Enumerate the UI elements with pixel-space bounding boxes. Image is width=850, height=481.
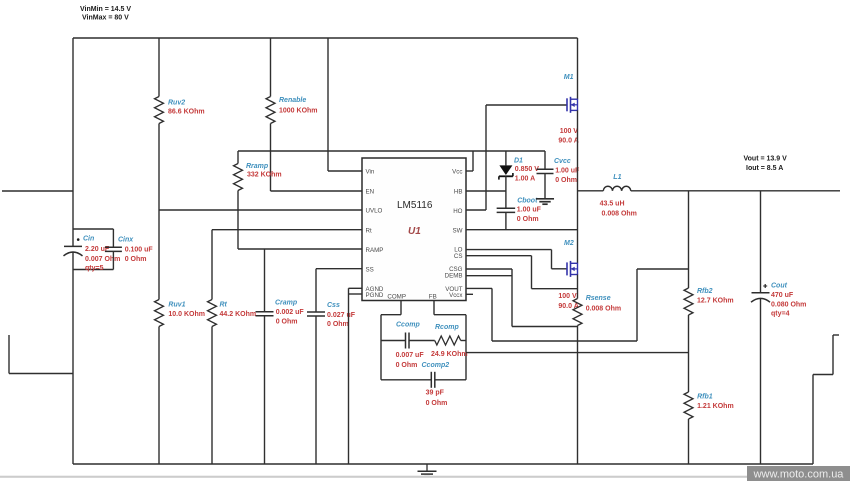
- wire VOUT drop: [491, 288, 493, 341]
- wire Rt rail top: [211, 230, 213, 300]
- svg-text:SW: SW: [453, 227, 463, 234]
- svg-text:Vin: Vin: [366, 169, 375, 176]
- wire COMP drop: [400, 301, 402, 315]
- resistor Rsense: [573, 299, 582, 326]
- wire CS drop: [531, 256, 533, 289]
- wire Cvcc rail bottom: [544, 174, 546, 199]
- wire Ruv2-Ruv1 rail middle: [158, 124, 160, 300]
- wire Vin pin net: [328, 170, 362, 172]
- wire Vcc riser: [472, 151, 474, 171]
- resistor Ruv2: [155, 97, 164, 124]
- ground Cvcc: [536, 198, 554, 200]
- svg-text:0 Ohm: 0 Ohm: [426, 400, 448, 407]
- svg-text:FB: FB: [429, 294, 437, 301]
- svg-text:Rfb1: Rfb1: [697, 394, 713, 401]
- svg-text:0.002 uF: 0.002 uF: [276, 309, 305, 316]
- wire comp middle left: [381, 340, 406, 342]
- svg-text:VinMin = 14.5 V: VinMin = 14.5 V: [80, 6, 131, 13]
- wire Ruv2 rail top: [158, 38, 160, 97]
- svg-text:D1: D1: [514, 158, 523, 165]
- capacitor Cout polarity mark: [763, 284, 767, 288]
- wire EN net: [271, 190, 363, 192]
- wire comp box bottom-right: [435, 379, 466, 381]
- svg-text:M1: M1: [564, 74, 574, 81]
- svg-text:EN: EN: [366, 189, 375, 196]
- wire VIN top rail: [73, 37, 578, 39]
- svg-text:470 uF: 470 uF: [771, 292, 794, 299]
- svg-text:Cinx: Cinx: [118, 237, 134, 244]
- svg-text:Rsense: Rsense: [586, 295, 611, 302]
- svg-text:1.00 A: 1.00 A: [515, 176, 535, 183]
- svg-text:RAMP: RAMP: [366, 247, 384, 254]
- svg-text:1000 KOhm: 1000 KOhm: [279, 107, 318, 114]
- wire FB drop: [433, 301, 435, 315]
- wire FB tap net: [466, 352, 689, 354]
- wire UVLO net: [159, 209, 362, 211]
- ground main (bottom rail): [426, 464, 428, 471]
- wire Css rail bottom: [315, 316, 317, 464]
- svg-text:qty=4: qty=4: [771, 310, 790, 317]
- watermark box www.moto.com.ua: [747, 466, 850, 481]
- svg-text:PGND: PGND: [366, 292, 384, 299]
- svg-text:0.027 uF: 0.027 uF: [327, 312, 356, 319]
- capacitor Cin polarity dot: [77, 238, 80, 241]
- svg-text:0 Ohm: 0 Ohm: [276, 319, 298, 326]
- resistor Rcomp: [435, 336, 461, 345]
- transistor M2: [566, 262, 568, 275]
- wire VIN left rail upper segment: [72, 38, 74, 246]
- capacitor Cramp: [256, 311, 274, 313]
- wire Vcc pin stub: [466, 170, 473, 172]
- svg-text:Rt: Rt: [220, 301, 228, 308]
- resistor Rramp: [234, 164, 243, 191]
- svg-text:HO: HO: [453, 208, 462, 215]
- svg-text:Rt: Rt: [366, 227, 372, 234]
- wire CSG net: [466, 268, 512, 270]
- capacitor Ccomp2: [430, 372, 432, 388]
- wire LO net: [466, 249, 552, 251]
- svg-text:HB: HB: [454, 189, 463, 196]
- wire AGND-PGND rail: [348, 288, 350, 464]
- svg-text:0 Ohm: 0 Ohm: [125, 256, 147, 263]
- wire VOUT sense horizontal: [492, 340, 637, 342]
- svg-text:qty=5: qty=5: [85, 265, 104, 272]
- svg-text:0 Ohm: 0 Ohm: [555, 177, 577, 184]
- wire HB net: [466, 190, 506, 192]
- capacitor Cboot: [497, 207, 516, 209]
- wire ground bottom rail: [73, 463, 813, 465]
- svg-text:100 V: 100 V: [560, 128, 579, 135]
- wire Rsense to ground rail: [577, 326, 579, 465]
- capacitor Cin (polarized, on left rail): [64, 245, 82, 247]
- svg-text:0 Ohm: 0 Ohm: [517, 216, 539, 223]
- wire Css rail top: [315, 269, 317, 312]
- svg-text:Rramp: Rramp: [246, 163, 269, 170]
- svg-text:UVLO: UVLO: [366, 208, 383, 215]
- wire M2 source to Rsense: [577, 275, 579, 299]
- diode D1: [499, 165, 512, 175]
- resistor Rt: [208, 300, 217, 327]
- wire CSG to Rsense bottom: [512, 326, 578, 328]
- wire comp box top-right: [434, 314, 466, 316]
- svg-text:LM5116: LM5116: [397, 200, 433, 211]
- wire M1 gate net: [486, 104, 567, 106]
- svg-text:Cboot: Cboot: [517, 197, 538, 204]
- wire left rail lower segment (ground return): [72, 252, 74, 464]
- wire comp box bottom-left: [381, 379, 431, 381]
- wire AGND net: [349, 287, 363, 289]
- svg-text:Vcc: Vcc: [452, 169, 462, 176]
- wire D1 anode segment: [505, 151, 507, 165]
- wire Cramp rail bottom: [264, 316, 266, 464]
- wire SW to L1: [578, 190, 604, 192]
- wire Rfb1 rail bottom: [688, 419, 690, 464]
- svg-text:0 Ohm: 0 Ohm: [327, 321, 349, 328]
- wire right step horizontal lower: [813, 374, 833, 376]
- svg-text:L1: L1: [613, 174, 621, 181]
- wire Rt rail bottom: [211, 327, 213, 465]
- wire CSG-DEMB drop: [511, 269, 513, 327]
- wire Cinx branch lower: [112, 251, 114, 269]
- wire DEMB net: [466, 275, 512, 277]
- svg-text:100 V: 100 V: [558, 293, 577, 300]
- svg-text:0.007 uF: 0.007 uF: [396, 352, 425, 359]
- capacitor Cvcc: [537, 168, 554, 170]
- wire VOUT sense riser: [636, 269, 638, 341]
- wire VOUT output rail: [631, 190, 840, 192]
- svg-text:0.008 Ohm: 0.008 Ohm: [586, 305, 621, 312]
- wire Rfb2-Rfb1 rail (FB tap): [688, 315, 690, 392]
- wire CS to Rsense top: [532, 288, 578, 290]
- svg-text:1.21 KOhm: 1.21 KOhm: [697, 403, 734, 410]
- wire Cout rail top: [760, 191, 762, 293]
- capacitor Cinx: [105, 246, 122, 248]
- wire PGND net: [349, 293, 363, 295]
- svg-text:Iout = 8.5 A: Iout = 8.5 A: [746, 165, 783, 172]
- svg-text:Ruv2: Ruv2: [168, 99, 185, 106]
- wire Vin riser: [327, 38, 329, 171]
- wire Cinx branch upper: [112, 229, 114, 247]
- wire comp middle right: [461, 340, 466, 342]
- wire Ruv1 rail bottom: [158, 327, 160, 465]
- wire D1 cathode to Cboot: [505, 176, 507, 208]
- svg-text:86.6 KOhm: 86.6 KOhm: [168, 109, 205, 116]
- svg-text:0.080 Ohm: 0.080 Ohm: [771, 301, 806, 308]
- wire HO riser: [485, 105, 487, 210]
- resistor Rfb1: [684, 392, 693, 419]
- transistor M1: [566, 98, 568, 111]
- svg-text:90.0 A: 90.0 A: [558, 138, 578, 145]
- svg-text:COMP: COMP: [387, 294, 406, 301]
- inductor L1: [603, 186, 631, 191]
- svg-text:Cvcc: Cvcc: [554, 158, 571, 165]
- wire SW net: [466, 229, 578, 231]
- wire Rramp top net (to VCC rail): [238, 150, 545, 152]
- capacitor Cout (polarized): [752, 292, 770, 294]
- wire HO pin stub: [466, 209, 486, 211]
- svg-text:10.0 KOhm: 10.0 KOhm: [168, 311, 205, 318]
- wire input stub left edge: [2, 190, 73, 192]
- wire M1 source to M2 drain rail (SW node): [577, 110, 579, 263]
- wire comp box left rail: [380, 315, 382, 380]
- svg-text:www.moto.com.ua: www.moto.com.ua: [753, 468, 845, 480]
- node Cin box bottom edge: [73, 269, 113, 271]
- wire Rt net: [212, 229, 362, 231]
- svg-text:24.9 KOhm: 24.9 KOhm: [431, 351, 468, 358]
- capacitor Css: [307, 311, 325, 313]
- svg-text:332 KOhm: 332 KOhm: [247, 171, 282, 178]
- wire Rfb2 rail top: [688, 191, 690, 288]
- wire left L-stub vertical: [8, 335, 10, 374]
- wire right step horizontal upper: [833, 334, 839, 336]
- wire Cramp rail top: [264, 249, 266, 312]
- svg-text:Rcomp: Rcomp: [435, 324, 459, 331]
- svg-text:43.5 uH: 43.5 uH: [600, 201, 625, 208]
- wire Rramp rail bottom: [237, 191, 239, 250]
- svg-text:M2: M2: [564, 240, 574, 247]
- svg-text:39 pF: 39 pF: [426, 390, 445, 397]
- wire LO drop: [551, 250, 553, 269]
- svg-text:DEMB: DEMB: [445, 272, 463, 279]
- wire CS net: [466, 255, 532, 257]
- svg-text:0.008 Ohm: 0.008 Ohm: [602, 211, 637, 218]
- svg-text:0.100 uF: 0.100 uF: [125, 247, 154, 254]
- op-amp U1 LM5116 body: [362, 158, 466, 301]
- svg-text:12.7 KOhm: 12.7 KOhm: [697, 298, 734, 305]
- resistor Rfb2: [684, 288, 693, 315]
- svg-text:Cout: Cout: [771, 282, 788, 289]
- wire right step riser lower: [812, 375, 814, 465]
- svg-text:Ccomp2: Ccomp2: [422, 362, 450, 369]
- svg-text:1.00 uF: 1.00 uF: [517, 207, 542, 214]
- wire Vccx stub: [466, 293, 473, 295]
- wire right step riser upper: [832, 335, 834, 375]
- wire RAMP net: [238, 248, 362, 250]
- wire VOUT sense to output node: [637, 268, 689, 270]
- wire Rramp rail top: [237, 151, 239, 164]
- svg-text:Ruv1: Ruv1: [168, 301, 185, 308]
- svg-text:CS: CS: [454, 253, 463, 260]
- svg-text:0.007 Ohm: 0.007 Ohm: [85, 256, 120, 263]
- wire M2 gate net: [552, 268, 568, 270]
- resistor Ruv1: [155, 300, 164, 327]
- svg-text:44.2 KOhm: 44.2 KOhm: [220, 311, 257, 318]
- svg-text:0.850 V: 0.850 V: [515, 166, 539, 173]
- svg-text:0 Ohm: 0 Ohm: [396, 362, 418, 369]
- svg-text:Cin: Cin: [83, 236, 94, 243]
- svg-text:U1: U1: [408, 226, 421, 237]
- capacitor Ccomp: [405, 333, 407, 349]
- svg-text:Rfb2: Rfb2: [697, 288, 713, 295]
- wire left L-stub horizontal: [9, 373, 73, 375]
- wire comp middle center: [409, 340, 435, 342]
- wire SS net: [316, 268, 362, 270]
- wire Cboot to SW: [505, 212, 507, 229]
- wire M1 drain rail: [577, 38, 579, 99]
- svg-text:Cramp: Cramp: [275, 300, 298, 307]
- svg-text:VinMax = 80 V: VinMax = 80 V: [82, 14, 129, 21]
- resistor Renable: [266, 97, 275, 124]
- svg-text:SS: SS: [366, 266, 374, 273]
- wire Renable rail top: [270, 38, 272, 97]
- watermark band: [0, 476, 850, 478]
- svg-text:Vccx: Vccx: [449, 292, 463, 299]
- wire VOUT pin stub: [466, 287, 492, 289]
- svg-text:Css: Css: [327, 302, 340, 309]
- svg-text:Renable: Renable: [279, 97, 306, 104]
- wire comp box right rail: [465, 315, 467, 380]
- wire Renable rail bottom: [270, 124, 272, 192]
- wire comp box top-left: [381, 314, 401, 316]
- svg-text:Vout = 13.9 V: Vout = 13.9 V: [744, 156, 788, 163]
- svg-text:Ccomp: Ccomp: [396, 322, 420, 329]
- svg-text:1.00 uF: 1.00 uF: [555, 167, 580, 174]
- node Cin box top edge: [73, 228, 113, 230]
- wire Cvcc rail top: [544, 151, 546, 169]
- wire Cout rail bottom: [760, 299, 762, 465]
